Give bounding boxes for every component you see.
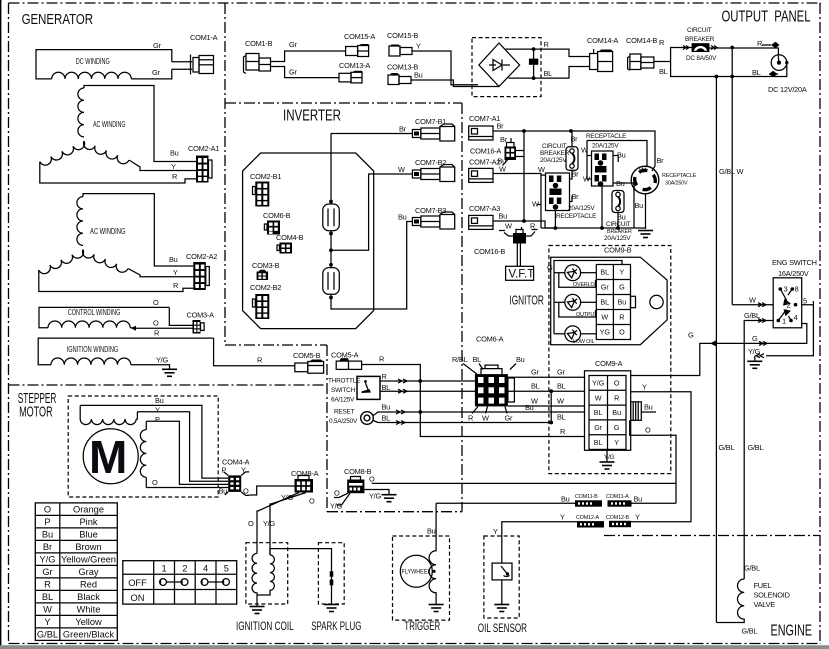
inverter compartment bottom border [225, 344, 327, 346]
ground COM8-B [382, 495, 397, 502]
eng switch terminals [777, 287, 798, 322]
svg-text:O: O [614, 379, 620, 388]
svg-text:1: 1 [162, 563, 167, 573]
svg-text:Brown: Brown [75, 542, 101, 552]
ignition coil ground [250, 607, 265, 614]
svg-text:Y: Y [171, 162, 176, 171]
svg-text:COM7-B1: COM7-B1 [415, 117, 446, 126]
svg-text:COM12-B: COM12-B [606, 515, 629, 521]
svg-text:White: White [77, 604, 101, 614]
stepper vertical winding [140, 421, 146, 487]
AC winding1 wires to COM2-A1 [84, 86, 196, 162]
svg-text:BL: BL [382, 383, 391, 392]
svg-text:30A/250V: 30A/250V [665, 181, 688, 187]
svg-text:BL: BL [42, 592, 53, 602]
svg-text:G: G [547, 263, 553, 272]
wire W COM7-A2 to receptacle1 [493, 174, 546, 176]
svg-text:GENERATOR: GENERATOR [22, 11, 94, 28]
svg-text:G: G [614, 423, 620, 432]
svg-text:Gr: Gr [152, 68, 160, 77]
wire Bu from COM9-A tab [641, 411, 656, 413]
stepper motor M circle [83, 429, 138, 484]
svg-text:DC WINDING: DC WINDING [76, 57, 110, 66]
svg-text:R: R [560, 427, 565, 436]
svg-text:Bu: Bu [516, 355, 525, 364]
svg-text:O: O [152, 478, 158, 487]
W bus top to round receptacle [587, 141, 647, 180]
receptacle block 1 [546, 173, 570, 211]
wire Y/G to ground [131, 365, 170, 370]
stepper wires Bu Y P O [80, 405, 228, 478]
wire Br into round receptacle [652, 166, 655, 171]
svg-text:OFF: OFF [128, 578, 147, 588]
bridge rectifier dashed box [472, 38, 541, 97]
svg-text:4: 4 [203, 563, 208, 573]
bottom scan bar [0, 645, 829, 649]
svg-text:SWITCH: SWITCH [331, 387, 356, 394]
svg-text:COM3-A: COM3-A [187, 311, 215, 320]
DC 12V/20A socket [771, 55, 787, 71]
trigger dashed box [393, 536, 450, 620]
ignition winding loop + R wire to COM5-B [38, 338, 213, 365]
svg-text:CIRCUIT: CIRCUIT [687, 27, 712, 34]
wire R rail to DC socket [709, 48, 779, 63]
svg-text:COM2-B1: COM2-B1 [250, 172, 281, 181]
svg-text:Gr: Gr [289, 40, 297, 49]
svg-text:COM1-A: COM1-A [190, 33, 218, 42]
svg-text:Bu: Bu [414, 71, 423, 80]
COM9-A connector outer [585, 371, 631, 451]
divider vertical x=327 [326, 345, 328, 512]
svg-text:Bu: Bu [561, 495, 570, 504]
throttle wires R BL [380, 380, 475, 382]
svg-text:G/BL: G/BL [37, 629, 58, 639]
svg-text:COM5-B: COM5-B [293, 351, 321, 360]
wires receptacle1 right Br [570, 131, 573, 202]
ignitor dashed box [549, 246, 671, 474]
trigger coil [429, 503, 436, 604]
svg-text:R: R [530, 222, 535, 231]
svg-text:BREAKER: BREAKER [540, 150, 570, 157]
junction dots bridge [532, 47, 536, 51]
fuel solenoid valve coil [716, 579, 744, 623]
COM9-B mounting hole [650, 295, 663, 308]
svg-text:RECEPTACLE: RECEPTACLE [662, 173, 697, 179]
spark plug ground [324, 605, 339, 612]
svg-text:YG: YG [600, 328, 611, 337]
svg-text:DC 8A/50V: DC 8A/50V [686, 55, 717, 62]
svg-text:4: 4 [794, 313, 798, 322]
svg-text:Bu: Bu [382, 403, 391, 412]
svg-text:Y: Y [560, 513, 565, 522]
svg-text:R: R [44, 579, 51, 589]
eng switch contacts [778, 289, 792, 321]
svg-text:20A/125V: 20A/125V [568, 205, 595, 212]
outer left border [8, 3, 10, 644]
svg-text:Br: Br [572, 192, 580, 201]
svg-text:AC WINDING: AC WINDING [93, 120, 126, 129]
svg-text:Green/Black: Green/Black [63, 629, 115, 639]
svg-text:G/BL: G/BL [742, 627, 758, 636]
svg-text:Gr: Gr [505, 414, 513, 423]
svg-text:Bu: Bu [634, 495, 643, 504]
COM9-B pentagon housing [551, 257, 667, 345]
svg-text:RESET: RESET [334, 409, 355, 416]
svg-text:COM8-A: COM8-A [291, 469, 319, 478]
junction dots on COM6 wires [549, 389, 553, 393]
engine section top border y=535.5 [604, 535, 820, 537]
LED overload [565, 265, 581, 281]
svg-text:Y/G: Y/G [39, 554, 55, 564]
svg-text:Pink: Pink [79, 517, 97, 527]
svg-text:COM3-B: COM3-B [252, 261, 280, 270]
svg-text:ON: ON [131, 593, 145, 603]
inverter IGBT capsule 2 [323, 268, 340, 295]
svg-text:COM14-A: COM14-A [587, 36, 618, 45]
svg-text:Br: Br [657, 156, 665, 165]
svg-text:COM8-B: COM8-B [344, 467, 372, 476]
svg-text:COM7-A3: COM7-A3 [469, 204, 500, 213]
svg-text:MOTOR: MOTOR [19, 405, 53, 421]
wire W to eng switch [732, 304, 773, 306]
svg-text:Gray: Gray [78, 567, 98, 577]
svg-text:3: 3 [784, 285, 788, 294]
wire Bu COM7-A3 to bus [493, 221, 555, 228]
ignition coil dashed box [246, 543, 288, 604]
COM9-A pin table [589, 376, 626, 450]
svg-text:BL: BL [531, 382, 540, 391]
svg-text:FUEL: FUEL [754, 581, 772, 590]
svg-text:IGNITION COIL: IGNITION COIL [236, 619, 294, 633]
svg-text:O: O [309, 497, 315, 506]
svg-text:20A/125V: 20A/125V [592, 143, 619, 150]
svg-text:Y: Y [173, 268, 178, 277]
LED output [565, 294, 581, 310]
svg-text:Y/G: Y/G [330, 502, 342, 511]
svg-text:LOW OIL: LOW OIL [573, 339, 595, 345]
wires Gr from COM1-B [271, 51, 346, 62]
svg-text:R/BL: R/BL [452, 355, 468, 364]
svg-text:Br: Br [399, 125, 407, 134]
svg-text:ENGINE: ENGINE [771, 623, 813, 640]
svg-text:R: R [468, 414, 473, 423]
svg-text:W: W [595, 393, 602, 402]
svg-text:W: W [505, 222, 512, 231]
circuit breaker capsule 1 [566, 147, 578, 171]
svg-text:O: O [334, 489, 340, 498]
wire G from eng switch bottom [631, 324, 807, 376]
AC winding2 wires to COM2-A2 [83, 194, 193, 266]
eng switch box [773, 278, 802, 328]
receptacle block 2 [592, 151, 614, 186]
svg-text:R: R [544, 40, 549, 49]
svg-text:P: P [44, 517, 50, 527]
wire ignition coil to spark plug [270, 549, 332, 570]
svg-text:COM12-A: COM12-A [576, 515, 599, 521]
wire Br to COM7-B1 [331, 133, 412, 135]
svg-text:Y: Y [44, 617, 50, 627]
svg-text:FLYWHEEL: FLYWHEEL [402, 569, 431, 576]
svg-text:V.F.T: V.F.T [509, 269, 535, 281]
svg-text:Bu: Bu [525, 403, 534, 412]
left page edge line [0, 0, 2, 649]
svg-text:R: R [757, 39, 762, 48]
svg-text:Gr: Gr [289, 68, 297, 77]
svg-text:Bu: Bu [427, 527, 436, 536]
stepper horizontal winding [80, 405, 137, 424]
svg-text:G/BL: G/BL [719, 443, 735, 452]
bridge rectifier diamond [479, 43, 520, 87]
svg-text:O: O [44, 504, 51, 514]
svg-text:RECEPTACLE: RECEPTACLE [556, 213, 596, 220]
svg-text:R: R [379, 355, 384, 364]
svg-text:Gr: Gr [531, 368, 539, 377]
svg-text:BL: BL [382, 414, 391, 423]
inverter vertical chain wire [331, 134, 412, 310]
svg-text:R: R [154, 329, 159, 338]
inverter compartment right border [461, 103, 463, 512]
outer top border [9, 2, 822, 4]
svg-text:Y/G: Y/G [281, 493, 293, 502]
round receptacle 30A/250V [631, 166, 659, 194]
wire BL rail to DC socket [716, 63, 786, 77]
svg-text:Y: Y [155, 406, 160, 415]
svg-text:Bu: Bu [618, 298, 627, 307]
svg-text:AC WINDING: AC WINDING [90, 227, 126, 236]
svg-text:COM11-A: COM11-A [606, 494, 629, 500]
svg-text:ENG SWITCH: ENG SWITCH [772, 258, 817, 267]
spark plug electrode [331, 570, 333, 604]
COM6-A right wires Gr BL W [508, 376, 585, 378]
svg-text:Y/G: Y/G [156, 356, 168, 365]
svg-text:IGNITOR: IGNITOR [509, 293, 544, 308]
svg-text:COM6-A: COM6-A [476, 335, 504, 344]
svg-text:BL: BL [594, 438, 603, 447]
circuit breaker capsule 2 [612, 191, 624, 213]
svg-text:O: O [153, 298, 159, 307]
control winding loop [39, 307, 169, 327]
svg-text:IGNITION WINDING: IGNITION WINDING [67, 345, 119, 354]
wire Br bus COM7-A1 [493, 131, 655, 166]
wire from COM14-B splitting to R and BL rails [654, 48, 717, 77]
svg-text:OIL SENSOR: OIL SENSOR [478, 621, 527, 635]
svg-text:Gr: Gr [601, 283, 610, 292]
svg-text:Red: Red [80, 579, 97, 589]
svg-text:COM11-B: COM11-B [575, 494, 598, 500]
svg-text:Y: Y [614, 438, 619, 447]
AC winding 2 (Y) [39, 197, 128, 276]
svg-text:OUTPUT PANEL: OUTPUT PANEL [722, 9, 811, 26]
svg-text:20A/125V: 20A/125V [540, 157, 567, 164]
COM9-A lock tab [631, 402, 642, 421]
svg-text:Y: Y [620, 268, 625, 277]
svg-text:6A/125V: 6A/125V [331, 397, 355, 404]
svg-text:BL: BL [473, 355, 482, 364]
wire O from COM4-A right [249, 486, 294, 495]
svg-text:BREAKER: BREAKER [685, 36, 715, 43]
svg-text:5: 5 [224, 563, 229, 573]
svg-text:W: W [482, 414, 489, 423]
svg-text:THROTTLE: THROTTLE [328, 378, 360, 385]
wire Bu to bridge [411, 80, 499, 87]
svg-text:COM16-A: COM16-A [470, 147, 501, 156]
svg-text:Bu: Bu [644, 403, 653, 412]
svg-text:W: W [601, 313, 608, 322]
wire Gr bottom to COM1-A [172, 68, 192, 70]
svg-text:Bu: Bu [155, 396, 164, 405]
svg-text:COM1-B: COM1-B [245, 39, 273, 48]
svg-text:W: W [538, 165, 545, 174]
svg-text:Blue: Blue [79, 529, 98, 539]
stepper dashed box [68, 396, 218, 497]
svg-text:RECEPTACLE: RECEPTACLE [586, 133, 626, 140]
svg-text:Yellow/Green: Yellow/Green [61, 554, 116, 564]
svg-text:G/BL: G/BL [744, 311, 760, 320]
COM9-B inner wire frame [554, 261, 622, 334]
svg-text:O: O [369, 475, 375, 484]
svg-text:COM4-B: COM4-B [276, 233, 304, 242]
svg-text:R: R [172, 172, 177, 181]
svg-text:1: 1 [782, 317, 786, 326]
svg-text:P: P [155, 415, 160, 424]
svg-text:BL: BL [557, 382, 566, 391]
oil sensor switch [492, 563, 512, 580]
svg-text:Bu: Bu [169, 255, 178, 264]
svg-text:Bu: Bu [42, 529, 53, 539]
svg-text:Y: Y [416, 42, 421, 51]
svg-text:Gr: Gr [153, 41, 161, 50]
svg-text:Bu: Bu [170, 149, 179, 158]
section divider vertical x=225 generator right [224, 3, 226, 345]
wire G/BL from eng switch down [744, 321, 773, 580]
svg-text:Bu: Bu [499, 212, 508, 221]
oil sensor dashed box [484, 536, 519, 618]
vertical bus x=524 [523, 131, 525, 221]
svg-text:SPARK PLUG: SPARK PLUG [311, 619, 361, 633]
svg-text:Bu: Bu [612, 408, 621, 417]
V.F.T box [506, 266, 534, 280]
DC winding loop [36, 50, 172, 79]
svg-text:R: R [257, 356, 262, 365]
svg-text:COM9-A: COM9-A [595, 359, 623, 368]
svg-text:R: R [614, 393, 619, 402]
svg-text:G: G [752, 334, 758, 343]
svg-text:BL: BL [600, 298, 609, 307]
svg-text:W: W [398, 165, 405, 174]
svg-text:Gr: Gr [594, 423, 603, 432]
svg-text:R: R [382, 372, 387, 381]
svg-text:BL: BL [594, 408, 603, 417]
bottom bus of receptacle panel [541, 227, 646, 229]
svg-text:G: G [619, 283, 625, 292]
svg-text:COM2-A2: COM2-A2 [186, 252, 217, 261]
svg-text:Black: Black [77, 592, 100, 602]
wire Y to bridge [412, 51, 478, 85]
junction dots output rails [730, 46, 734, 50]
svg-text:SOLENOID: SOLENOID [754, 591, 790, 600]
svg-text:W: W [557, 397, 564, 406]
svg-text:OUTPUT: OUTPUT [576, 312, 598, 318]
svg-text:BL: BL [600, 268, 609, 277]
COM9-B pin table [596, 265, 635, 340]
svg-text:COM2-A1: COM2-A1 [188, 144, 219, 153]
trigger Bu wire to COM11-B [436, 502, 575, 504]
wire Bu block2 to breaker2 [613, 156, 634, 191]
svg-text:16A/250V: 16A/250V [778, 269, 809, 278]
svg-text:Y/G: Y/G [604, 454, 615, 461]
wire R from COM5-A [362, 365, 585, 437]
svg-text:W: W [499, 165, 506, 174]
svg-text:TRIGGER: TRIGGER [404, 619, 440, 633]
inverter compartment top border [225, 102, 462, 104]
outer right border [819, 3, 821, 644]
svg-text:INVERTER: INVERTER [283, 108, 341, 125]
svg-text:M: M [89, 431, 127, 483]
breaker wire marks [683, 46, 717, 50]
ground (round receptacle) [638, 231, 653, 238]
outer bottom border [9, 643, 822, 645]
svg-text:Bu: Bu [398, 213, 407, 222]
svg-text:2: 2 [182, 563, 187, 573]
wire terminal5 to Y/G ground [766, 301, 813, 356]
svg-text:Br: Br [572, 170, 580, 179]
COM8-B left diagonals [334, 493, 350, 505]
reset wires Bu BL [373, 412, 584, 416]
svg-text:Y: Y [635, 513, 640, 522]
svg-text:COM15-B: COM15-B [387, 31, 418, 40]
svg-text:CONTROL WINDING: CONTROL WINDING [68, 308, 121, 317]
wires receptacle1 left [537, 175, 541, 228]
wire Gr top to COM1-A [172, 61, 192, 63]
svg-text:COM9-B: COM9-B [604, 246, 632, 255]
trigger ground [429, 605, 444, 612]
bridge R rail + BL rail [506, 49, 590, 56]
svg-text:BL: BL [544, 69, 553, 78]
svg-text:COM16-B: COM16-B [474, 247, 505, 256]
wire W tap to COM7-B2 [331, 174, 412, 250]
inverter IGBT capsule 1 [323, 204, 340, 231]
svg-text:Gr: Gr [42, 567, 52, 577]
VFT stem [517, 244, 520, 267]
svg-text:Y: Y [493, 527, 498, 536]
long vertical G/BL from BL rail [715, 77, 717, 623]
ground (ignition winding) [162, 369, 177, 376]
COM9-A ground [606, 450, 608, 461]
svg-text:COM15-A: COM15-A [344, 32, 375, 41]
wire O from COM9-A area to COM8-B [372, 420, 676, 503]
svg-text:W: W [749, 295, 756, 304]
long vertical W from R rail [731, 48, 733, 305]
svg-text:Orange: Orange [73, 504, 104, 514]
svg-text:BL: BL [557, 413, 566, 422]
flywheel [400, 555, 432, 587]
generator/stepper divider y=385 [9, 384, 328, 386]
svg-text:R: R [619, 313, 624, 322]
svg-text:COM14-B: COM14-B [626, 36, 657, 45]
wire R ignition to COM5-B [214, 338, 295, 366]
dip switch off contacts [160, 579, 230, 586]
svg-text:0.5A/250V: 0.5A/250V [329, 418, 358, 425]
svg-text:O: O [248, 519, 254, 528]
svg-text:G: G [688, 331, 694, 340]
svg-text:COM13-A: COM13-A [339, 61, 370, 70]
svg-text:DC 12V/20A: DC 12V/20A [768, 85, 807, 94]
svg-text:G/BL: G/BL [748, 443, 764, 452]
svg-text:Y/G: Y/G [592, 379, 605, 388]
wire Y from COM9-A to COM12-B [631, 392, 691, 522]
svg-text:Br: Br [497, 122, 505, 131]
svg-text:G/BL: G/BL [744, 564, 760, 573]
